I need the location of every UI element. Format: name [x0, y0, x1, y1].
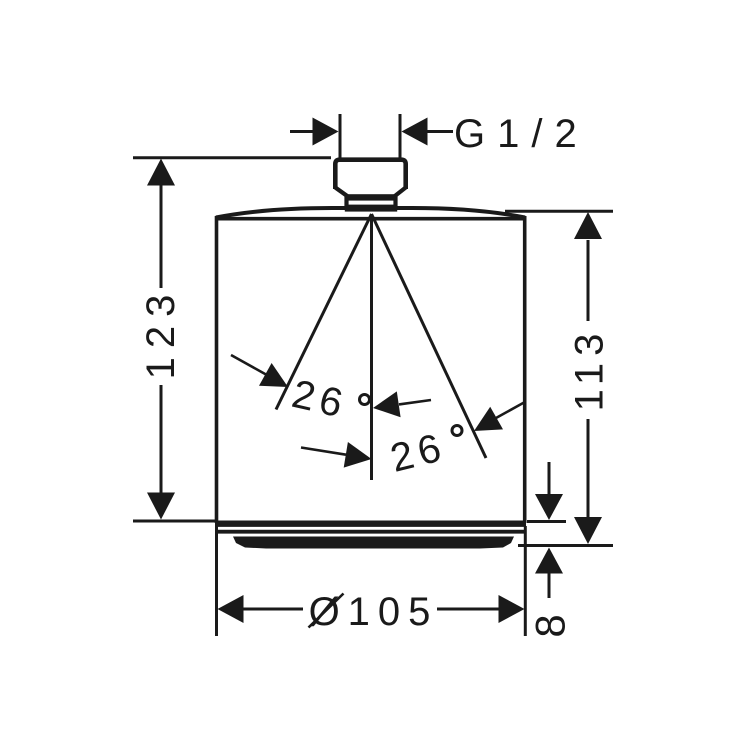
- connector thread bar upper: [345, 194, 397, 200]
- dim 8 up arrow: [535, 548, 563, 574]
- dim 123 line upper: [160, 184, 163, 288]
- dim 105 right ext line: [524, 526, 527, 636]
- dim 105 left ext line: [215, 526, 218, 636]
- dim 123 line lower: [160, 385, 163, 494]
- svg-text:8: 8: [527, 614, 574, 637]
- dim 105 right arrowhead: [499, 595, 525, 623]
- body top edge: [216, 217, 525, 221]
- dim 113 line lower: [587, 419, 590, 517]
- dim 105 left shaft: [243, 608, 303, 611]
- dim G12 right tick: [399, 114, 402, 158]
- dim G12 right shaft: [427, 130, 453, 133]
- dim G12 left tick: [339, 114, 342, 158]
- dim 105 left arrowhead: [218, 595, 244, 623]
- dim 105 right shaft: [437, 608, 500, 611]
- spray center line: [370, 214, 373, 480]
- dim 113 top tick: [505, 210, 613, 213]
- dim 113 down arrow: [574, 517, 602, 544]
- degree circle upper: [360, 395, 370, 405]
- svg-text:123: 123: [139, 286, 183, 380]
- body left edge: [215, 216, 219, 523]
- angle arrow A shaft: [231, 355, 266, 375]
- dim 123 down arrow: [147, 493, 175, 520]
- dim 8 lower shaft: [548, 573, 551, 598]
- angle arrow B head: [373, 391, 401, 417]
- svg-text:113: 113: [568, 327, 612, 412]
- angle arrow B shaft: [399, 400, 431, 404]
- body lid (domed top): [216, 208, 525, 218]
- under lip line: [217, 530, 524, 534]
- spray plate: [233, 537, 514, 549]
- svg-text:G1/2: G1/2: [454, 112, 589, 156]
- dim 8 upper shaft: [548, 462, 551, 495]
- angle arrow A head: [259, 363, 288, 387]
- angle arrow C head: [344, 442, 372, 468]
- spray right diagonal: [372, 214, 487, 458]
- dim 123 bottom tick: [133, 520, 217, 523]
- dim G12 left shaft: [290, 130, 314, 133]
- body right edge: [523, 216, 527, 523]
- spray left diagonal: [276, 214, 372, 410]
- dim G12 left arrowhead: [313, 118, 339, 146]
- dim 123 top tick: [133, 156, 331, 159]
- angle arrow C shaft: [301, 448, 346, 455]
- connector wide block: [335, 160, 405, 189]
- dim G12 right arrowhead: [402, 118, 428, 146]
- label 113 (rotated): [568, 327, 612, 412]
- angle arrow D shaft: [496, 403, 524, 419]
- dim 8 down arrow: [535, 494, 563, 520]
- connector taper left: [335, 188, 346, 211]
- label 26 deg lower: [386, 425, 450, 481]
- label 8 (rotated): [527, 614, 574, 637]
- svg-text:Ø105: Ø105: [309, 590, 439, 634]
- body bottom bar: [215, 521, 526, 527]
- connector taper right: [396, 188, 406, 211]
- degree circle lower: [452, 426, 462, 436]
- angle arrow D head: [474, 407, 503, 431]
- dim 113 line upper: [587, 240, 590, 321]
- dim 123 up arrow: [147, 159, 175, 186]
- dim 113 up arrow: [574, 212, 602, 239]
- connector thread bar lower: [345, 205, 397, 212]
- diameter symbol slash extension: [309, 594, 344, 628]
- dim 113/8 bottom line: [518, 544, 613, 547]
- label 123 (rotated): [139, 286, 183, 380]
- label 26 deg upper: [288, 372, 352, 427]
- dim 8 top tick: [527, 520, 566, 523]
